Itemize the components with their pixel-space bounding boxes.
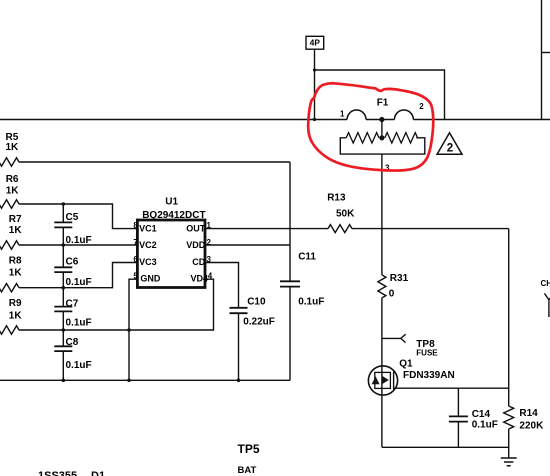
label C8 — [66, 337, 92, 371]
label TP5 — [238, 442, 260, 476]
label U1 — [142, 196, 205, 221]
node F1 bus junction — [379, 117, 384, 122]
label CHG — [541, 279, 550, 288]
svg-text:D1: D1 — [91, 470, 105, 476]
wire GND pin down — [129, 279, 137, 380]
wire 4P loop over fuse — [313, 68, 445, 119]
label U1 left pin names — [139, 223, 161, 283]
wire R14 to ground — [508, 429, 510, 458]
svg-text:2: 2 — [419, 102, 424, 111]
connector 4P box — [306, 36, 324, 49]
svg-text:0.1uF: 0.1uF — [66, 317, 92, 328]
wire 4P drop to bus — [314, 49, 316, 120]
svg-text:0.1uF: 0.1uF — [472, 420, 498, 431]
resistor R8 — [0, 284, 19, 292]
node 4P bus junction — [313, 118, 316, 121]
svg-text:BAT: BAT — [238, 465, 257, 476]
svg-text:VC3: VC3 — [139, 257, 157, 267]
label R6 — [6, 174, 20, 197]
node C5-R6 junction — [62, 202, 66, 206]
label C11 — [298, 252, 324, 308]
resistor R9 — [0, 326, 19, 334]
svg-text:R8: R8 — [9, 256, 22, 267]
svg-text:R31: R31 — [390, 273, 409, 284]
wire capacitor column C5 top — [62, 204, 64, 222]
node C5-R7 junction — [62, 243, 66, 247]
svg-text:FDN339AN: FDN339AN — [403, 370, 455, 381]
transistor Q1 body — [368, 366, 397, 395]
svg-text:1K: 1K — [9, 267, 23, 278]
wire C8 to bottom rail — [62, 351, 64, 380]
svg-text:7: 7 — [133, 238, 138, 247]
wire F1 pin3 down — [381, 154, 383, 275]
label R14 — [519, 408, 544, 431]
fuse F1 arc element — [347, 110, 413, 119]
wire CD to C10 — [205, 263, 239, 308]
svg-text:CHG: CHG — [541, 279, 550, 288]
wire right column down — [508, 229, 510, 406]
op-amp U1 body — [137, 220, 205, 288]
label C6 — [66, 257, 92, 288]
label R8 — [9, 256, 23, 279]
wire C10 to bottom rail — [238, 313, 240, 380]
svg-text:0.1uF: 0.1uF — [66, 277, 92, 288]
svg-text:FUSE: FUSE — [416, 349, 438, 358]
svg-text:0.1uF: 0.1uF — [298, 297, 324, 308]
node GND bottom junction — [127, 379, 131, 383]
capacitor C5 — [54, 222, 72, 227]
label 4P — [310, 38, 321, 48]
svg-text:OUT: OUT — [186, 223, 206, 233]
svg-text:R13: R13 — [327, 192, 346, 203]
resistor R14 — [504, 406, 514, 429]
svg-text:C6: C6 — [66, 257, 79, 268]
capacitor C8 — [54, 346, 72, 351]
resistor R6 — [0, 200, 19, 208]
resistor R7 — [0, 241, 19, 249]
svg-text:R6: R6 — [6, 174, 19, 185]
node C6-R8 junction — [62, 286, 66, 290]
wire R6 to VC1 — [19, 204, 137, 229]
wire OUT line with R13 — [205, 228, 328, 230]
fuse F1 heater box — [340, 138, 425, 154]
ground — [501, 458, 517, 466]
svg-text:VC2: VC2 — [139, 240, 157, 250]
label U1 left pin numbers — [133, 221, 138, 281]
svg-text:4P: 4P — [310, 38, 321, 48]
svg-text:C7: C7 — [66, 298, 79, 309]
label R31 — [389, 273, 409, 299]
svg-text:R9: R9 — [9, 298, 22, 309]
wire VDD to C11 column — [205, 244, 290, 246]
fuse F1 heater resistor left — [346, 133, 379, 143]
label R13 — [327, 192, 355, 219]
wire top bus right segment — [413, 119, 550, 121]
node C10 bottom junction — [237, 379, 241, 383]
resistor R13 — [328, 225, 352, 233]
wire top bus left segment — [0, 119, 347, 121]
svg-text:1SS355: 1SS355 — [38, 470, 77, 476]
svg-text:6: 6 — [133, 255, 138, 264]
label C5 — [66, 212, 92, 246]
wire top right stub — [542, 52, 550, 54]
svg-text:U1: U1 — [165, 196, 178, 207]
svg-text:2: 2 — [447, 143, 453, 155]
resistor R31 — [378, 275, 386, 298]
svg-text:Q1: Q1 — [399, 358, 413, 369]
svg-text:VD4: VD4 — [191, 274, 209, 284]
svg-text:1: 1 — [340, 109, 345, 118]
wire R31 to Q1 — [381, 298, 383, 447]
transistor Q1 internals — [372, 372, 394, 390]
label C10 — [243, 297, 275, 328]
svg-text:1K: 1K — [9, 311, 23, 322]
wire C11 to bottom rail — [289, 287, 291, 381]
wire bottom rail — [0, 379, 290, 381]
capacitor C7 — [54, 307, 72, 312]
label Q1 — [399, 358, 454, 380]
label U1 right pin names — [186, 223, 208, 283]
fuse F1 heater resistor right — [385, 133, 418, 143]
wire Q1 gate line — [394, 387, 509, 389]
svg-text:1: 1 — [207, 221, 212, 230]
capacitor C11 — [280, 281, 300, 286]
svg-text:1K: 1K — [9, 225, 23, 236]
svg-text:GND: GND — [140, 274, 161, 284]
label R7 — [9, 214, 23, 236]
wire C7 to C8 — [62, 311, 64, 346]
svg-text:C10: C10 — [247, 297, 266, 308]
test point TP8 — [382, 334, 406, 342]
svg-text:2: 2 — [207, 238, 212, 247]
svg-text:VDD: VDD — [186, 240, 206, 250]
svg-text:0: 0 — [389, 288, 395, 299]
svg-text:CD: CD — [192, 257, 205, 267]
wire C14 column bottom — [457, 422, 459, 448]
label F1 pin 2 — [419, 102, 424, 111]
svg-text:TP5: TP5 — [238, 442, 260, 456]
wire R9 to VD pin — [19, 279, 214, 330]
svg-text:R14: R14 — [519, 408, 538, 419]
svg-text:3: 3 — [207, 255, 212, 264]
connector CHG symbol — [544, 293, 550, 317]
svg-text:1K: 1K — [6, 185, 20, 196]
svg-text:BQ29412DCT: BQ29412DCT — [142, 210, 205, 221]
node GND-R9 junction — [127, 328, 131, 332]
label C14 — [472, 409, 498, 430]
node C8 bottom junction — [62, 379, 66, 383]
node C7-R9 junction — [62, 328, 66, 332]
svg-text:50K: 50K — [336, 208, 355, 219]
svg-text:F1: F1 — [377, 98, 389, 109]
wire R5 to VDD column — [19, 161, 290, 163]
note triangle 2 — [437, 133, 462, 155]
label F1 pin 1 — [340, 109, 345, 118]
svg-text:4: 4 — [208, 272, 213, 281]
svg-text:220K: 220K — [519, 421, 544, 432]
label note 2 — [447, 143, 453, 155]
svg-text:C8: C8 — [66, 337, 79, 348]
svg-text:1K: 1K — [6, 142, 20, 153]
wire R8 to VC3 — [19, 263, 137, 288]
label R5 — [6, 132, 20, 153]
svg-text:0.1uF: 0.1uF — [66, 235, 92, 246]
capacitor C6 — [54, 267, 72, 272]
wire C5 to C6 — [62, 227, 64, 267]
label C7 — [66, 298, 92, 328]
label F1 — [377, 98, 389, 109]
wire C14 column top — [457, 388, 459, 416]
svg-text:0.1uF: 0.1uF — [66, 360, 92, 371]
label TP8 — [416, 339, 438, 358]
label F1 pin 3 — [385, 164, 390, 173]
wire Q1 source rail — [382, 446, 509, 448]
resistor R5 — [0, 158, 19, 166]
annotation red circle around F1 — [308, 83, 433, 170]
svg-text:C5: C5 — [66, 212, 79, 223]
node F1 heater junction — [379, 135, 384, 140]
label R9 — [9, 298, 23, 322]
wire top right vertical — [541, 0, 543, 120]
svg-text:R7: R7 — [9, 214, 22, 225]
wire R7 to VC2 — [19, 244, 137, 246]
capacitor C14 — [449, 416, 468, 421]
wire C6 to C7 — [62, 272, 64, 307]
svg-text:VC1: VC1 — [139, 223, 157, 233]
capacitor C10 — [230, 308, 248, 313]
wire C11 column — [289, 162, 291, 281]
svg-text:5: 5 — [133, 272, 138, 281]
label D1 part — [38, 470, 105, 476]
label U1 right pin numbers — [207, 221, 213, 281]
wire R13 to right column — [352, 228, 509, 230]
svg-text:0.22uF: 0.22uF — [243, 317, 275, 328]
wire F1 pin3 link — [381, 120, 383, 138]
svg-text:C11: C11 — [298, 252, 316, 263]
svg-text:8: 8 — [133, 221, 138, 230]
